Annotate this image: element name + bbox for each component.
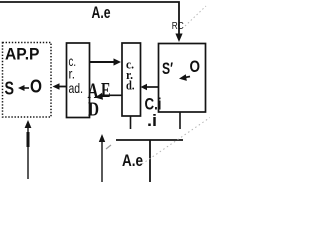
- label c. (box3): [126, 58, 134, 72]
- svg-text:O: O: [30, 77, 42, 97]
- svg-text:S′: S′: [162, 59, 173, 78]
- svg-text:.i: .i: [147, 111, 157, 130]
- label ad. (box2): [69, 80, 84, 96]
- label AP.P: [5, 46, 40, 64]
- scan artifact: bottom-right diagonal: [142, 118, 210, 165]
- box c.r.ad: [67, 43, 90, 118]
- wire: leg below box S'O: [179, 112, 181, 129]
- wire: T junction horizontal: [116, 139, 183, 141]
- svg-text:d.: d.: [126, 79, 135, 93]
- box AP.P (dotted): [3, 43, 52, 118]
- label A.e (bottom): [122, 151, 143, 170]
- wire: arrow O to S': [179, 74, 190, 81]
- label E: [101, 78, 111, 102]
- wire: arrow from box c.r.d to A/D: [95, 93, 122, 100]
- label C.i: [145, 95, 162, 114]
- wire: up arrow below box c.r.ad: [99, 134, 105, 182]
- label O (box S'O): [190, 57, 201, 76]
- arrowhead into box S'O (down): [175, 34, 182, 43]
- label r. (box3): [126, 68, 133, 82]
- wire: arrow from box S'O to box c.r.d: [141, 84, 159, 90]
- svg-text:AP.P: AP.P: [5, 46, 40, 64]
- wire: arrow box c.r.ad to box c.r.d: [90, 58, 122, 65]
- label S': [162, 59, 173, 78]
- wire: top feedback line: [0, 2, 179, 34]
- label RC: [172, 21, 184, 32]
- wire: arrow from box c.r.ad to box AP.P: [53, 83, 67, 90]
- svg-text:D: D: [88, 99, 99, 121]
- svg-text:A.e: A.e: [92, 3, 111, 22]
- label c. (box2): [69, 53, 77, 69]
- box c.r.d: [122, 43, 141, 116]
- box S'O: [159, 44, 206, 113]
- wire: up arrow into box AP.P: [25, 120, 32, 179]
- wire: T junction vertical: [149, 140, 151, 182]
- label S: [5, 78, 15, 99]
- wire: leg below box c.r.d: [130, 116, 132, 129]
- svg-text:ad.: ad.: [69, 80, 84, 96]
- label A.e (top): [92, 3, 111, 22]
- label A: [88, 78, 99, 103]
- wire: arrow O to S: [18, 85, 29, 91]
- svg-text:RC: RC: [172, 21, 184, 32]
- label O (in AP.P): [30, 77, 42, 97]
- scan artifact: small dash left of T: [106, 145, 111, 149]
- svg-text:S: S: [5, 78, 15, 99]
- label D: [88, 99, 99, 121]
- label r. (box2): [69, 66, 76, 82]
- label .i: [147, 111, 157, 130]
- svg-text:O: O: [190, 57, 201, 76]
- scan artifact: top-right diagonal: [185, 6, 206, 26]
- label d. (box3): [126, 79, 135, 93]
- svg-text:A.e: A.e: [122, 151, 143, 170]
